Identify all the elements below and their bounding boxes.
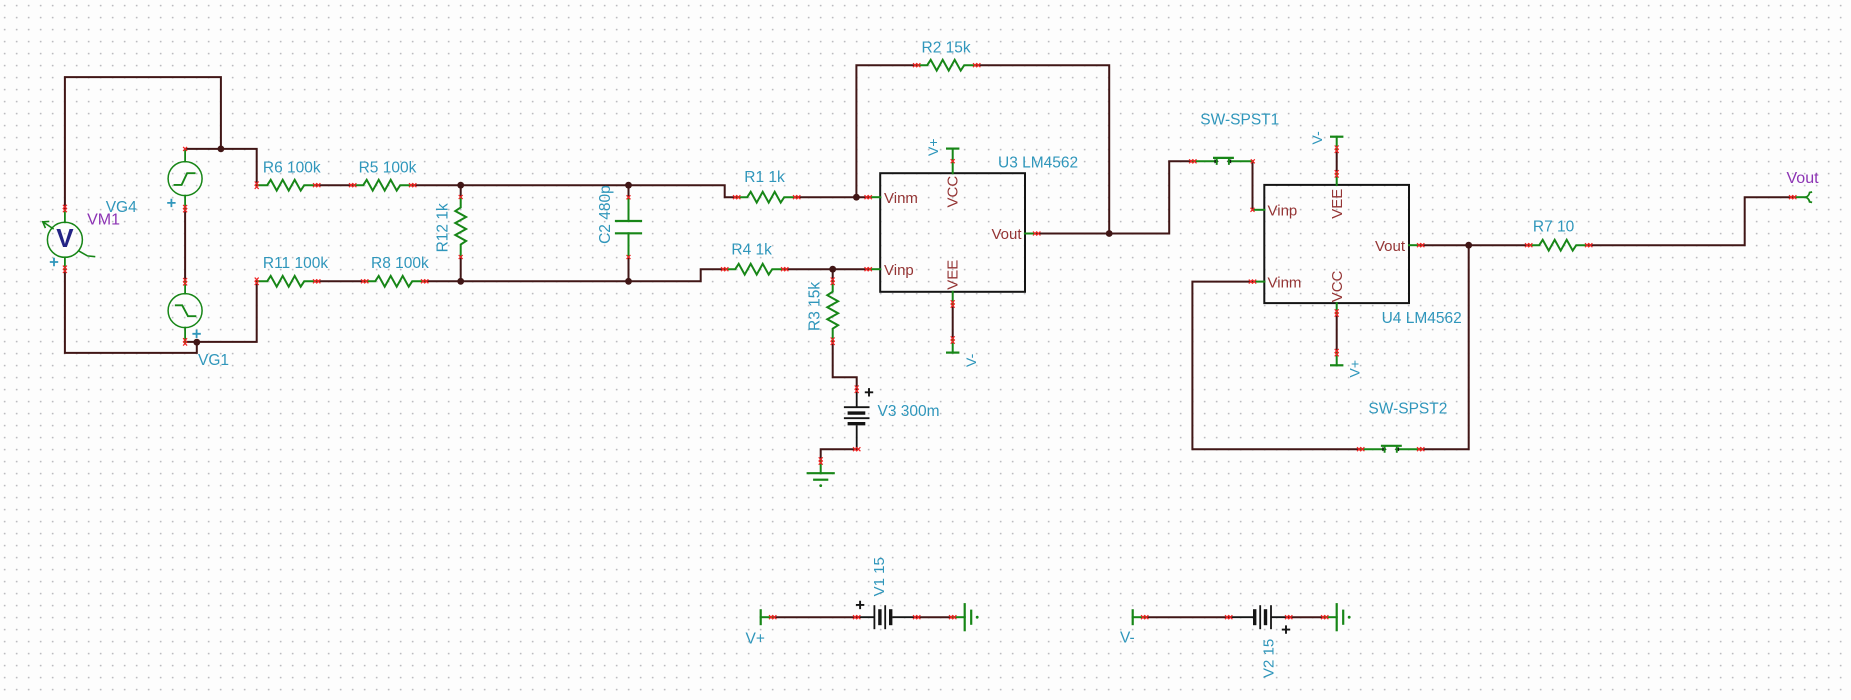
label R8 <box>371 255 429 272</box>
power V- jumper (U4 VEE) <box>1330 137 1343 185</box>
wire W16 <box>628 257 630 281</box>
op-amp U3 <box>870 173 1036 292</box>
wire W25 <box>1192 282 1360 450</box>
wire W19 <box>821 449 857 461</box>
node N4 (junction) <box>625 182 632 189</box>
wire W22 <box>1037 233 1110 235</box>
wire W1 <box>65 77 221 209</box>
svg-text:R1 1k: R1 1k <box>744 169 785 186</box>
wire W10 <box>856 65 916 197</box>
source VG1 <box>168 282 202 342</box>
svg-text:V+: V+ <box>925 138 941 156</box>
ground <box>808 457 834 487</box>
wire W31 <box>1336 313 1338 353</box>
terminal V- jumper <box>1133 609 1149 625</box>
battery V3 <box>844 386 873 452</box>
wire W9 <box>797 196 869 198</box>
svg-text:Vinp: Vinp <box>884 262 914 279</box>
svg-text:V+: V+ <box>1347 360 1363 378</box>
label V+ (U4) <box>1347 360 1363 378</box>
wire W14 <box>785 268 869 270</box>
label VG1 <box>198 352 229 369</box>
resistor R4 <box>721 264 788 275</box>
pin U4 Vinp <box>1251 203 1298 220</box>
svg-text:V3 300m: V3 300m <box>878 403 940 420</box>
wire W3 <box>184 209 186 282</box>
wire W24 <box>1252 161 1254 210</box>
label V3 <box>878 403 940 420</box>
wire W18 <box>833 341 857 389</box>
label R3 <box>807 282 824 331</box>
label R2 <box>922 39 971 56</box>
label U3 <box>998 155 1078 172</box>
label V+ terminal <box>746 630 765 647</box>
svg-text:V: V <box>56 223 74 253</box>
node N10 (junction) <box>1465 242 1472 249</box>
label V2 <box>1261 639 1278 678</box>
power V- jumper (U3 VEE) <box>946 292 959 353</box>
pin label VCC (U4) <box>1329 270 1346 302</box>
wire W23 <box>1109 161 1193 233</box>
capacitor C2 <box>616 195 641 259</box>
pin U3 Vout <box>991 226 1040 243</box>
pin U3 Vinp <box>865 262 914 279</box>
switch SW-SPST2 <box>1357 446 1424 452</box>
wire W15 <box>460 257 462 281</box>
label R11 <box>263 255 328 272</box>
svg-text:U3 LM4562: U3 LM4562 <box>998 155 1078 172</box>
node N9 (junction) <box>1106 230 1113 237</box>
node N2 (junction) <box>193 339 200 346</box>
label V+ (U3) <box>925 138 941 156</box>
battery V1 <box>853 601 920 630</box>
svg-text:V1 15: V1 15 <box>871 557 888 596</box>
resistor R5 <box>349 180 416 191</box>
svg-text:Vinm: Vinm <box>884 190 918 207</box>
svg-text:VM1: VM1 <box>87 212 120 229</box>
pin U4 Vinm <box>1249 274 1302 291</box>
op-amp U4 <box>1254 185 1420 303</box>
label U4 <box>1382 310 1462 327</box>
terminal V+ jumper <box>761 609 777 625</box>
source VG4 <box>168 149 202 209</box>
wire W5 <box>65 269 197 353</box>
svg-text:VCC: VCC <box>1329 270 1346 302</box>
svg-text:R5 100k: R5 100k <box>359 159 417 176</box>
battery V2 <box>1225 605 1292 634</box>
svg-text:C2 480p: C2 480p <box>597 185 614 244</box>
pin U3 Vinm <box>865 190 918 207</box>
wire W4 <box>185 281 257 342</box>
wire W28 <box>1589 197 1793 245</box>
svg-text:R4 1k: R4 1k <box>731 241 772 258</box>
power V+ jumper (U3 VCC) <box>946 149 959 174</box>
pin label VCC (U3) <box>944 176 961 208</box>
svg-text:Vinp: Vinp <box>1268 203 1298 220</box>
label V1 <box>871 557 888 596</box>
svg-text:VEE: VEE <box>944 260 961 290</box>
svg-text:Vinm: Vinm <box>1268 274 1302 291</box>
label SW-SPST2 <box>1368 400 1447 417</box>
wire W11 <box>977 65 1109 233</box>
voltmeter VM1 <box>43 210 95 269</box>
label C2 <box>597 185 614 244</box>
svg-text:VG1: VG1 <box>198 352 229 369</box>
svg-text:R2 15k: R2 15k <box>922 39 971 56</box>
ground (V1) <box>949 604 979 630</box>
node N5 (junction) <box>457 278 464 285</box>
svg-text:SW-SPST1: SW-SPST1 <box>1200 112 1279 129</box>
terminal Vout <box>1789 192 1812 202</box>
svg-text:V2 15: V2 15 <box>1261 639 1278 678</box>
wire W13 <box>425 269 725 281</box>
svg-text:SW-SPST2: SW-SPST2 <box>1368 400 1447 417</box>
ground (V2) <box>1321 604 1351 630</box>
resistor R11 <box>255 276 321 287</box>
resistor R8 <box>361 276 428 287</box>
pin VG1 <box>183 278 201 346</box>
svg-text:U4 LM4562: U4 LM4562 <box>1382 310 1462 327</box>
svg-text:R3 15k: R3 15k <box>807 282 824 331</box>
svg-text:V+: V+ <box>746 630 765 647</box>
svg-text:V-: V- <box>1309 131 1325 145</box>
label V- (U3) <box>963 353 979 367</box>
svg-text:Vout: Vout <box>991 226 1022 243</box>
pin VG4 <box>167 147 187 212</box>
wire W34 <box>1145 616 1229 618</box>
pin U4 Vout <box>1375 238 1424 255</box>
resistor R6 <box>255 180 321 191</box>
wire W7 <box>413 184 629 186</box>
wire W17 <box>832 269 834 281</box>
node N1 (junction) <box>218 146 225 153</box>
label R12 <box>434 203 451 252</box>
label R1 <box>744 169 785 186</box>
wire W6 <box>317 184 353 186</box>
resistor R12 <box>455 195 466 259</box>
node N8 (junction) <box>829 266 836 273</box>
wire W20 <box>460 185 462 197</box>
switch SW-SPST1 <box>1189 158 1255 164</box>
label SW-SPST1 <box>1200 112 1279 129</box>
pin label VEE (U3) <box>944 260 961 290</box>
svg-text:R7 10: R7 10 <box>1533 219 1575 236</box>
svg-text:Vout: Vout <box>1375 238 1406 255</box>
svg-text:R12 1k: R12 1k <box>434 203 451 252</box>
resistor R7 <box>1525 240 1592 251</box>
label VM1 <box>87 212 120 229</box>
svg-text:VEE: VEE <box>1329 189 1346 219</box>
wire W35 <box>1289 616 1325 618</box>
node N7 (junction) <box>853 194 860 201</box>
wire W8 <box>629 185 737 197</box>
resistor R2 <box>913 60 980 71</box>
svg-text:Vout: Vout <box>1787 170 1820 187</box>
wire W12 <box>317 280 365 282</box>
resistor R1 <box>733 192 800 203</box>
label VG4 <box>106 199 137 216</box>
wire W2 <box>186 149 257 185</box>
wire W27 <box>1420 244 1529 246</box>
label R6 <box>263 159 321 176</box>
pin label VEE (U4) <box>1329 189 1346 219</box>
label V- (U4) <box>1309 131 1325 145</box>
wire W29 <box>952 304 954 340</box>
svg-text:V-: V- <box>963 353 979 367</box>
svg-text:R6 100k: R6 100k <box>263 159 321 176</box>
label R4 <box>731 241 772 258</box>
label V- terminal <box>1120 629 1135 646</box>
svg-text:R8 100k: R8 100k <box>371 255 429 272</box>
label Vout <box>1787 170 1820 187</box>
wire W30 <box>1336 149 1338 174</box>
wire W26 <box>1421 245 1469 449</box>
resistor R3 <box>827 278 838 345</box>
label R7 <box>1533 219 1575 236</box>
node N6 (junction) <box>625 278 632 285</box>
svg-text:V-: V- <box>1120 629 1135 646</box>
label R5 <box>359 159 417 176</box>
node N3 (junction) <box>457 182 464 189</box>
power V+ jumper (U4 VCC) <box>1330 303 1343 365</box>
svg-text:R11 100k: R11 100k <box>263 255 328 272</box>
wire W21 <box>628 185 630 197</box>
wire W32 <box>773 616 857 618</box>
svg-text:VCC: VCC <box>944 176 961 208</box>
pin VM1+ <box>50 205 67 273</box>
wire W33 <box>917 616 953 618</box>
